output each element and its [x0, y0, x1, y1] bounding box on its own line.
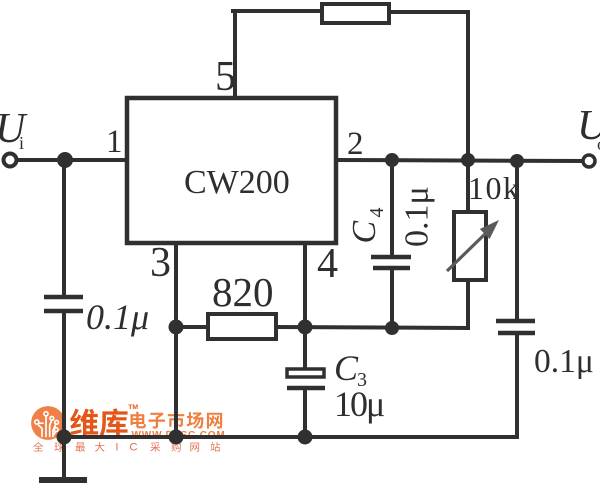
svg-text:5: 5 — [215, 54, 236, 100]
wire: top rail left segment — [233, 9, 323, 13]
wire: output rail — [336, 160, 583, 161]
input terminal — [4, 154, 17, 167]
node: bottom rail junction C3 — [298, 430, 313, 445]
svg-text:3: 3 — [150, 240, 171, 286]
svg-text:0.1μ: 0.1μ — [86, 297, 149, 337]
output terminal — [583, 155, 595, 167]
svg-text:CW200: CW200 — [184, 164, 290, 201]
node: 820 rail junction C4 — [385, 321, 399, 335]
wire: bottom rail — [64, 435, 517, 439]
wire: pin 3 drop — [174, 243, 178, 437]
resistor R1 (top, unlabeled) body — [322, 4, 389, 23]
svg-text:i: i — [19, 133, 24, 153]
watermark logo text 维库 — [70, 408, 98, 436]
svg-text:820: 820 — [212, 269, 274, 315]
watermark slogan 全球最大IC采购网站 — [33, 442, 43, 451]
wire: RP1 lower lead — [466, 280, 470, 328]
capacitor C4 value 0.1u (rotated) — [399, 186, 436, 247]
wire: right shunt vertical upper — [515, 161, 519, 319]
watermark logo circle — [31, 406, 65, 440]
potentiometer RP1 10k body — [454, 212, 486, 280]
capacitor C2 (output 0.1u) plates — [496, 319, 535, 324]
svg-text:0.1μ: 0.1μ — [399, 186, 436, 247]
svg-text:10μ: 10μ — [334, 384, 384, 424]
wire: input lead — [16, 158, 127, 162]
wire: C3 lower lead — [303, 390, 307, 437]
wire: RP1 upper lead — [466, 160, 470, 212]
IC U1 CW200 body — [127, 98, 336, 243]
wire: left shunt vertical lower — [62, 313, 66, 437]
wire: left shunt vertical upper — [62, 160, 66, 295]
wire: top loop left vertical (pin 5 riser) — [233, 11, 237, 98]
ground — [39, 477, 87, 483]
svg-text:4: 4 — [317, 241, 338, 287]
svg-text:1: 1 — [106, 124, 123, 160]
svg-text:TM: TM — [128, 404, 138, 411]
svg-text:0.1μ: 0.1μ — [534, 343, 594, 380]
wire: top loop right vertical — [466, 12, 470, 160]
svg-text:4: 4 — [366, 208, 388, 218]
svg-text:C: C — [346, 221, 383, 244]
node: 820 rail junction pin4 — [298, 320, 313, 335]
capacitor C3 bottom plate — [287, 386, 325, 391]
potentiometer RP1 arrow shaft — [447, 234, 485, 271]
svg-text:10k: 10k — [468, 170, 521, 206]
svg-text:C: C — [129, 442, 137, 454]
node: bottom rail junction left — [57, 430, 72, 445]
node: output rail junction at C4 — [385, 153, 399, 167]
svg-text:2: 2 — [347, 126, 364, 162]
wire: C4 upper lead — [390, 160, 394, 255]
wire: ground stub — [62, 437, 66, 479]
wire: right shunt vertical lower — [515, 335, 519, 437]
node: output rail junction at C2 — [510, 154, 524, 168]
node: output rail junction at RP1 — [461, 153, 475, 167]
capacitor C4 plates — [371, 255, 411, 260]
capacitor C4 designator (rotated) — [346, 208, 388, 244]
wire: pin 4 drop — [303, 243, 307, 366]
capacitor C1 (input 0.1u) plates — [44, 295, 83, 300]
node: bottom rail junction pin3 — [169, 430, 184, 445]
svg-text:C: C — [334, 348, 359, 388]
node: 820 rail junction pin3 — [169, 320, 184, 335]
resistor R2 820 body — [208, 314, 276, 339]
wire: top rail right segment — [388, 10, 468, 14]
svg-text:I: I — [115, 442, 118, 454]
node: input junction — [57, 152, 73, 168]
capacitor C3 top plate (open box) — [287, 369, 324, 377]
wire: C4 lower lead — [390, 270, 394, 328]
wire: 820 rail left — [176, 325, 208, 329]
wire: 820 rail right — [276, 327, 468, 328]
potentiometer RP1 arrow head — [480, 220, 499, 239]
watermark text 电子市场网 — [130, 412, 146, 429]
